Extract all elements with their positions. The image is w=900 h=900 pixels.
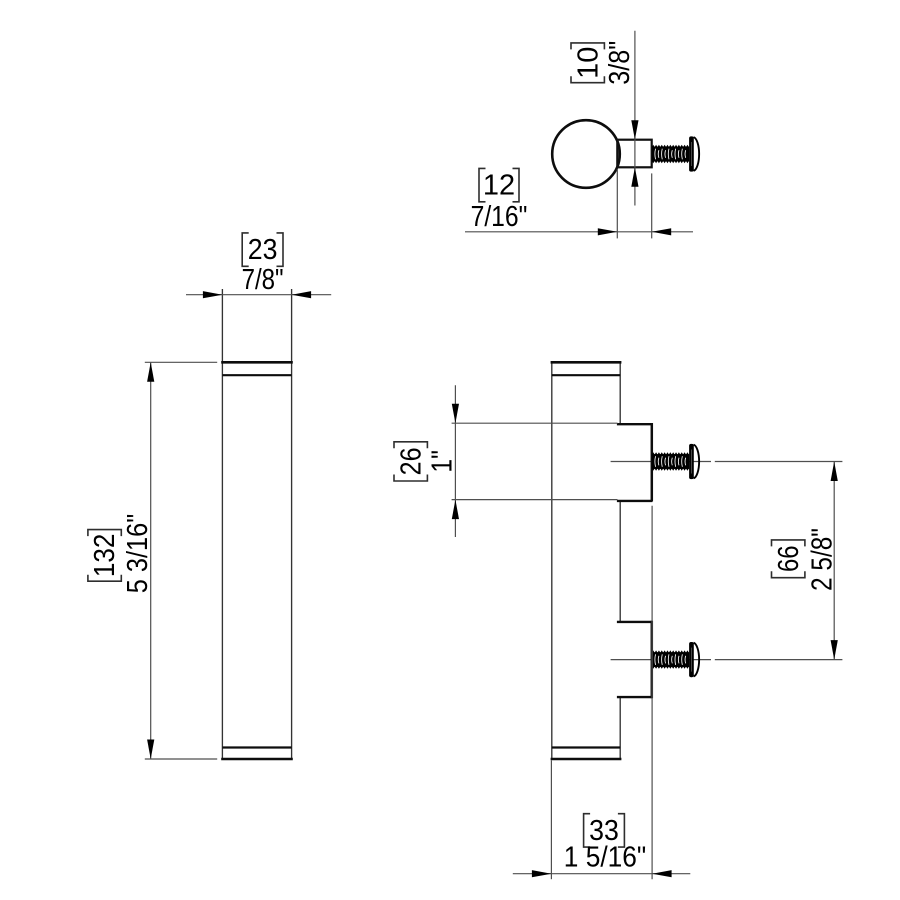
- svg-text:26: 26: [395, 447, 427, 475]
- svg-text:132: 132: [89, 534, 121, 578]
- svg-text:12: 12: [483, 170, 515, 202]
- svg-text:1": 1": [426, 450, 458, 473]
- svg-text:3/8": 3/8": [604, 41, 636, 85]
- svg-text:7/8": 7/8": [242, 264, 284, 296]
- svg-text:2 5/8": 2 5/8": [806, 528, 838, 591]
- svg-text:5 3/16": 5 3/16": [122, 514, 154, 593]
- svg-text:7/16": 7/16": [471, 201, 528, 233]
- svg-text:1 5/16": 1 5/16": [564, 841, 646, 873]
- svg-text:23: 23: [248, 234, 278, 266]
- svg-text:66: 66: [773, 546, 805, 573]
- svg-text:10: 10: [572, 47, 604, 79]
